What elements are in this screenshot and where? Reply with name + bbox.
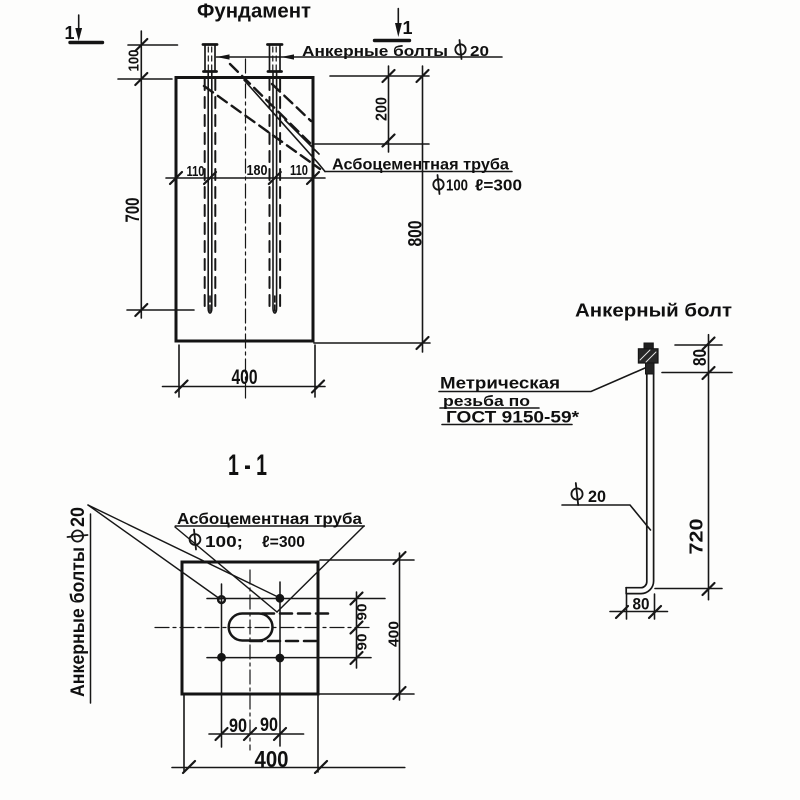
- svg-text:ℓ=300: ℓ=300: [262, 534, 305, 551]
- svg-text:400: 400: [232, 366, 258, 389]
- svg-text:110: 110: [290, 162, 308, 179]
- svg-text:Фундамент: Фундамент: [197, 1, 311, 23]
- svg-text:100: 100: [126, 50, 143, 72]
- svg-text:Анкерные болты: Анкерные болты: [302, 43, 448, 60]
- svg-text:200: 200: [374, 97, 391, 121]
- svg-text:Анкерные болты: Анкерные болты: [68, 547, 89, 697]
- svg-text:90: 90: [229, 716, 247, 737]
- svg-text:Асбоцементная труба: Асбоцементная труба: [177, 511, 362, 528]
- svg-text:800: 800: [406, 221, 427, 247]
- svg-text:180: 180: [247, 162, 268, 179]
- svg-text:20: 20: [470, 43, 489, 60]
- svg-text:100;: 100;: [205, 534, 243, 551]
- svg-text:400: 400: [255, 746, 289, 772]
- svg-text:80: 80: [633, 595, 650, 614]
- svg-text:Асбоцементная труба: Асбоцементная труба: [332, 157, 509, 174]
- svg-text:100: 100: [446, 178, 468, 195]
- svg-text:1: 1: [403, 18, 413, 38]
- svg-text:Метрическая: Метрическая: [440, 374, 560, 393]
- svg-text:90: 90: [354, 633, 370, 650]
- svg-text:20: 20: [588, 487, 606, 506]
- svg-text:400: 400: [386, 621, 403, 647]
- svg-text:80: 80: [690, 349, 710, 366]
- svg-text:20: 20: [68, 507, 89, 527]
- svg-text:720: 720: [687, 519, 707, 555]
- svg-text:1: 1: [65, 23, 75, 43]
- svg-text:Анкерный болт: Анкерный болт: [575, 301, 732, 321]
- svg-text:1 - 1: 1 - 1: [228, 449, 267, 482]
- svg-text:110: 110: [187, 163, 205, 180]
- svg-text:90: 90: [260, 715, 278, 736]
- svg-text:ℓ=300: ℓ=300: [475, 178, 522, 195]
- svg-text:ГОСТ 9150-59*: ГОСТ 9150-59*: [446, 408, 579, 427]
- svg-text:700: 700: [123, 198, 144, 223]
- svg-text:90: 90: [354, 603, 370, 620]
